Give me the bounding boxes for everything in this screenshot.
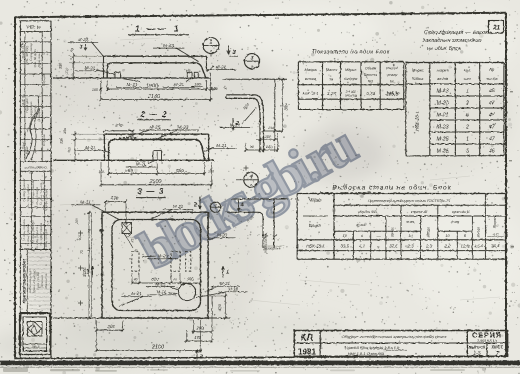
svg-text:260: 260 (196, 326, 205, 331)
svg-text:Итого: Итого (427, 227, 431, 237)
svg-text:-1,15: -1,15 (492, 232, 499, 236)
svg-text:300: 300 (59, 62, 63, 69)
svg-text:ЛИСТ: ЛИСТ (492, 345, 504, 350)
svg-text:м3: м3 (368, 80, 372, 84)
svg-text:Объем: Объем (365, 67, 377, 71)
svg-text:70: 70 (135, 249, 139, 253)
svg-text:М-18: М-18 (228, 287, 239, 292)
svg-text:стали: стали (387, 73, 398, 77)
svg-text:М-21: М-21 (230, 122, 241, 127)
svg-text:Марка: Марка (309, 198, 322, 203)
svg-text:46: 46 (489, 149, 495, 155)
svg-text:М-21: М-21 (156, 290, 167, 295)
svg-text:2: 2 (465, 125, 469, 131)
svg-text:Применяемая арматурная сталь: Применяемая арматурная сталь ГОСТ5781-75 (368, 199, 451, 203)
svg-text:550: 550 (176, 168, 184, 174)
svg-text:Выборка стали на один.: Выборка стали на один. Блок (332, 184, 452, 192)
svg-text:37,6: 37,6 (389, 244, 398, 249)
svg-text:40: 40 (134, 278, 138, 282)
svg-text:2100: 2100 (147, 94, 161, 100)
svg-text:Гл. спец. Соколов: Гл. спец. Соколов (35, 186, 39, 209)
svg-text:180: 180 (194, 81, 201, 86)
svg-text:М-28: М-28 (437, 149, 449, 155)
svg-text:1,25: 1,25 (327, 91, 336, 96)
svg-text:М-21: М-21 (85, 66, 96, 71)
svg-text:70: 70 (80, 250, 84, 254)
svg-text:М-28: М-28 (78, 37, 89, 42)
svg-text:Гл. спец. Соколов: Гл. спец. Соколов (31, 180, 35, 203)
svg-text:М-21: М-21 (131, 291, 142, 296)
svg-text:Сборные железобетонные камеры: Сборные железобетонные камеры на тепловы… (342, 334, 448, 339)
svg-text:Гл. спец. Соколов: Гл. спец. Соколов (22, 178, 26, 201)
svg-text:33,5: 33,5 (340, 244, 349, 249)
svg-text:2 — 2: 2 — 2 (139, 110, 167, 119)
svg-text:Прокат: Прокат (493, 216, 497, 229)
svg-text:Гл. спец. Соколов: Гл. спец. Соколов (26, 223, 30, 246)
svg-text:Блока: Блока (412, 76, 424, 81)
svg-text:Марка: Марка (437, 68, 450, 73)
svg-text:15,0: 15,0 (475, 244, 484, 249)
svg-text:М-28: М-28 (217, 233, 227, 238)
svg-text:Марка: Марка (305, 67, 318, 72)
svg-text:2,3: 2,3 (425, 244, 433, 249)
svg-text:Сергеев: Сергеев (42, 74, 46, 86)
svg-text:600: 600 (186, 276, 194, 281)
svg-text:3: 3 (251, 56, 254, 62)
svg-text:НБК-1,8-1 Опалубка: НБК-1,8-1 Опалубка (348, 351, 385, 356)
svg-text:Итого: Итого (390, 227, 394, 237)
svg-text:Гл. спец. Соколов: Гл. спец. Соколов (44, 228, 48, 251)
svg-text:Марка: Марка (345, 68, 356, 72)
svg-text:1: 1 (466, 137, 469, 143)
svg-text:47: 47 (489, 125, 496, 131)
svg-text:260: 260 (106, 324, 115, 329)
svg-text:46: 46 (489, 89, 495, 95)
svg-text:60: 60 (173, 278, 177, 282)
svg-text:М-25: М-25 (155, 281, 166, 286)
svg-text:47: 47 (489, 101, 496, 107)
svg-text:Масса: Масса (326, 68, 337, 72)
svg-text:Бетона: Бетона (344, 77, 357, 81)
svg-text:Спецификация — марок: Спецификация — марок (424, 30, 488, 36)
svg-text:1 —— 1: 1 —— 1 (135, 24, 181, 34)
svg-text:РЕГ. №: РЕГ. № (27, 25, 42, 30)
svg-text:350: 350 (284, 103, 289, 111)
svg-text:100: 100 (208, 170, 214, 174)
svg-text:195,5: 195,5 (386, 91, 399, 97)
svg-text:ВЫПУСК: ВЫПУСК (469, 346, 486, 350)
svg-text:0,74: 0,74 (366, 91, 375, 96)
svg-text:150: 150 (63, 128, 67, 134)
svg-text:развертка: развертка (264, 237, 268, 254)
svg-text:М-23: М-23 (437, 125, 449, 131)
svg-text:а: а (251, 65, 253, 69)
svg-text:3 — 3: 3 — 3 (137, 187, 164, 196)
svg-text:210: 210 (65, 68, 69, 75)
svg-text:а: а (250, 183, 252, 187)
svg-text:закладных элементов: закладных элементов (422, 38, 482, 44)
svg-text:М-21: М-21 (136, 162, 147, 167)
svg-text:2100: 2100 (151, 344, 164, 350)
svg-text:410: 410 (78, 235, 82, 241)
svg-text:М-21: М-21 (173, 204, 184, 209)
svg-text:НБК-18-1: НБК-18-1 (415, 111, 420, 131)
svg-text:165: 165 (268, 126, 275, 130)
svg-text:кг: кг (390, 80, 394, 84)
svg-text:Блока: Блока (309, 223, 321, 228)
svg-text:3: 3 (466, 149, 469, 155)
svg-text:КЛ: КЛ (301, 333, 314, 343)
svg-text:Блока: Блока (305, 76, 317, 81)
svg-text:Итого: Итого (476, 227, 480, 237)
svg-text:2100: 2100 (149, 179, 162, 185)
svg-text:М-21: М-21 (216, 143, 227, 148)
svg-text:класса АI: класса АI (411, 210, 429, 214)
svg-text:М-18: М-18 (437, 89, 449, 95)
svg-text:30,6: 30,6 (491, 244, 500, 249)
svg-text:№: № (489, 67, 494, 72)
svg-text:Гл. спец. Соколов: Гл. спец. Соколов (31, 220, 35, 243)
svg-text:Гл. спец. Соколов: Гл. спец. Соколов (26, 183, 30, 206)
svg-text:шт: шт (464, 76, 471, 81)
svg-text:1: 1 (210, 40, 213, 46)
svg-text:250: 250 (68, 147, 72, 154)
svg-text:СОГЛАСОВАНО: СОГЛАСОВАНО (24, 165, 47, 169)
svg-text:Показатели на один Блок: Показатели на один Блок (312, 50, 389, 56)
svg-text:М43-(50): М43-(50) (345, 94, 357, 98)
svg-text:100: 100 (265, 135, 272, 139)
svg-text:470: 470 (115, 123, 123, 128)
svg-text:1: 1 (466, 89, 469, 95)
svg-text:—: — (375, 233, 380, 238)
svg-text:листа: листа (485, 77, 497, 81)
svg-text:3: 3 (80, 45, 83, 51)
svg-text:Максимова: Максимова (44, 273, 48, 288)
svg-text:350: 350 (60, 138, 64, 144)
svg-text:т: т (330, 77, 334, 82)
svg-text:Гл. спец. Соколов: Гл. спец. Соколов (22, 218, 26, 241)
svg-text:410: 410 (131, 237, 135, 243)
svg-text:НБК-18-1: НБК-18-1 (303, 92, 319, 96)
svg-text:2: 2 (465, 101, 469, 107)
svg-text:3.903 КЛ 13: 3.903 КЛ 13 (477, 339, 496, 343)
svg-text:ЛЕНГИПРОИНЖПРОЕКТ: ЛЕНГИПРОИНЖПРОЕКТ (23, 258, 27, 304)
svg-text:470: 470 (111, 195, 119, 200)
svg-text:Нижний блок камеры 1,8 х 1,8: Нижний блок камеры 1,8 х 1,8 (345, 345, 400, 350)
svg-text:Гл. спец. Соколов: Гл. спец. Соколов (39, 222, 43, 245)
svg-text:е: е (164, 153, 166, 157)
svg-text:2: 2 (193, 203, 197, 209)
svg-text:ф мм: ф мм (451, 220, 460, 224)
svg-text:4: 4 (239, 203, 243, 209)
svg-text:105: 105 (99, 170, 105, 174)
svg-text:Расход: Расход (386, 67, 398, 71)
svg-text:15: 15 (224, 86, 228, 90)
svg-text:Взам. инв.: Взам. инв. (37, 53, 41, 68)
svg-text:в мм: в мм (407, 220, 415, 224)
svg-text:12,8: 12,8 (461, 244, 470, 249)
svg-text:4,1: 4,1 (359, 244, 366, 249)
svg-text:на один Блок: на один Блок (427, 46, 462, 52)
svg-text:Гл. спец. Соколов: Гл. спец. Соколов (39, 182, 43, 205)
svg-text:260: 260 (75, 218, 79, 225)
svg-text:класса АIII: класса АIII (358, 210, 378, 214)
svg-text:2: 2 (199, 355, 203, 361)
svg-text:559: 559 (125, 168, 133, 174)
svg-text:47: 47 (489, 137, 496, 143)
svg-text:кратки АI: кратки АI (452, 210, 471, 214)
svg-text:1: 1 (226, 270, 229, 276)
svg-text:2,2: 2,2 (443, 244, 451, 249)
svg-text:100: 100 (92, 88, 99, 92)
svg-text:М-23: М-23 (158, 254, 169, 259)
svg-text:1: 1 (87, 270, 90, 276)
